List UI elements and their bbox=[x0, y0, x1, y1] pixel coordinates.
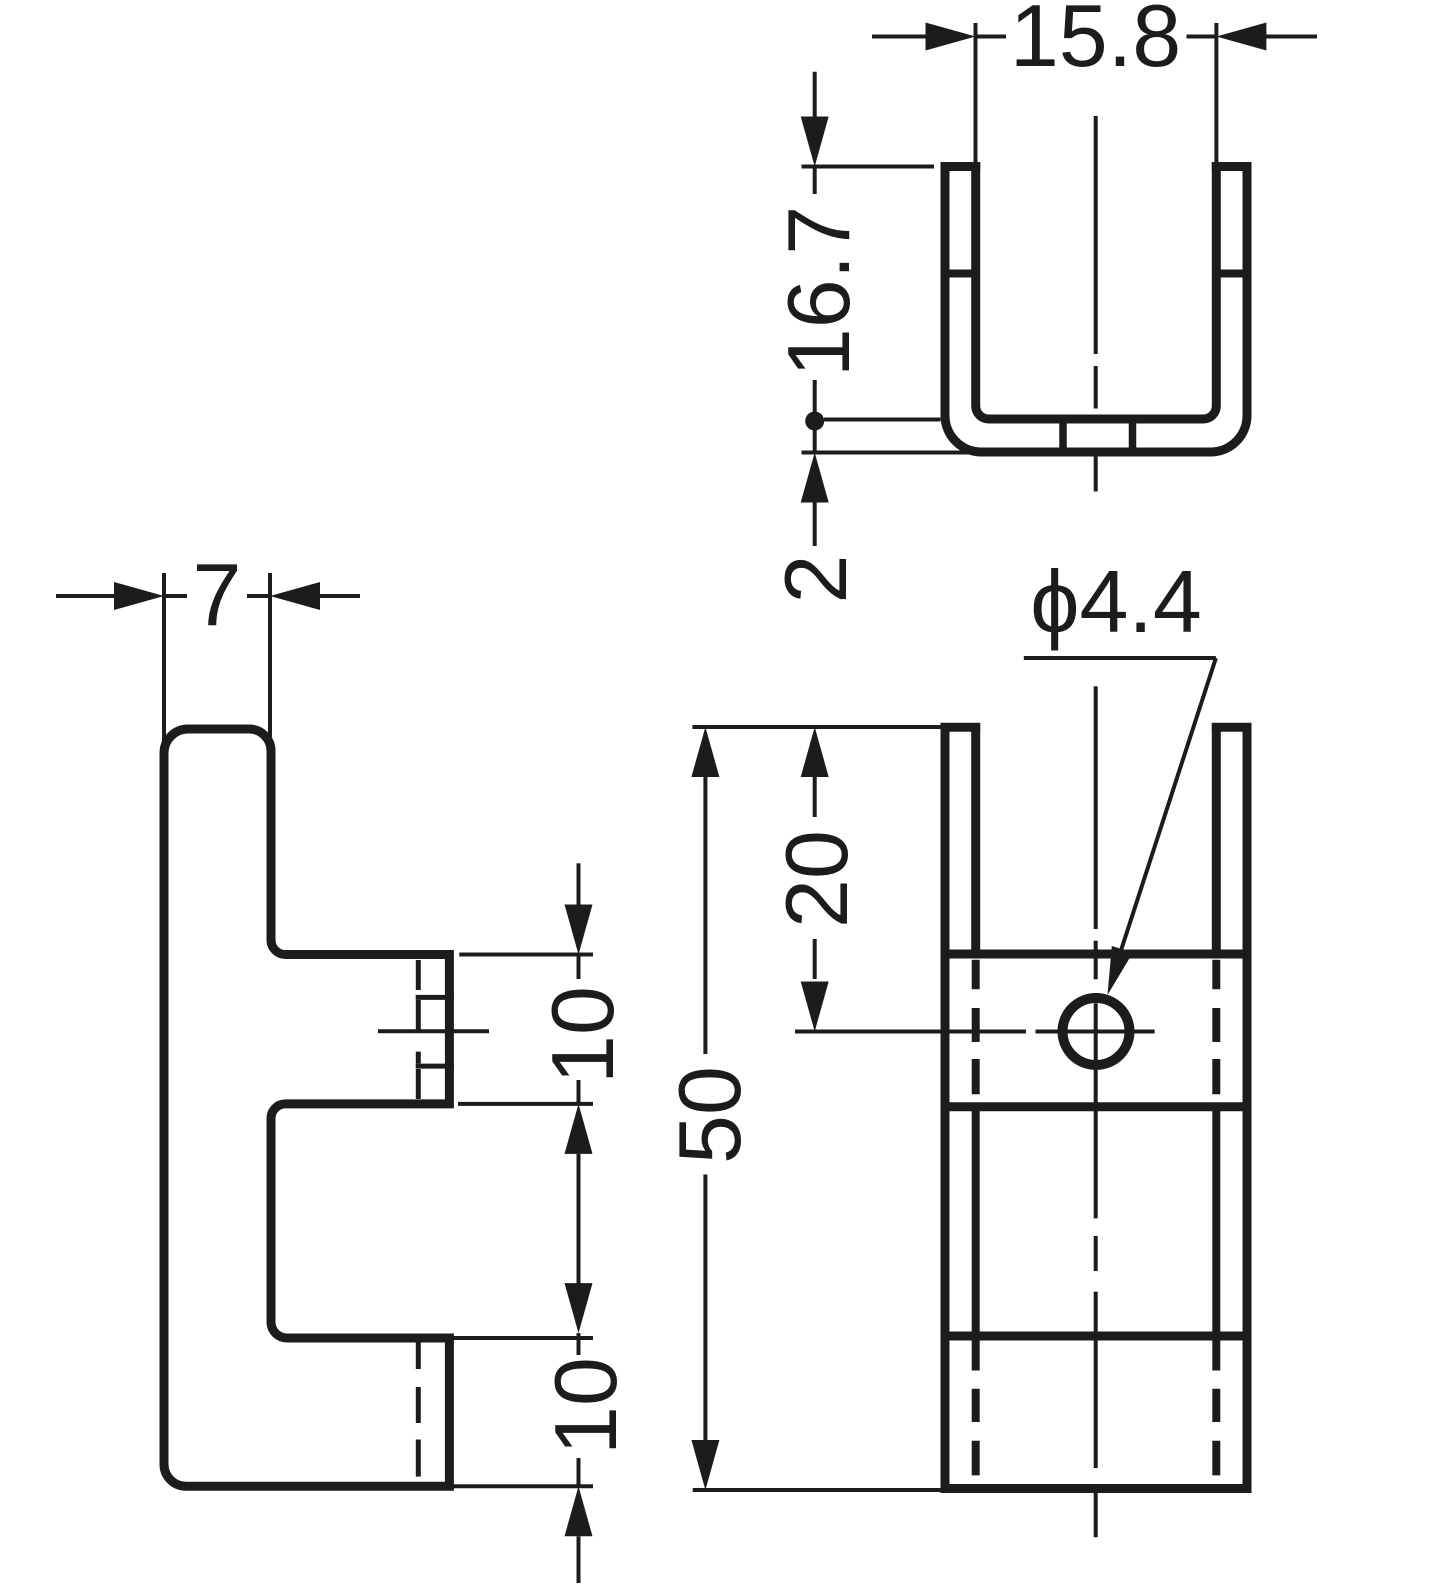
svg-text:16.7: 16.7 bbox=[769, 206, 868, 377]
svg-text:20: 20 bbox=[767, 830, 866, 928]
dimension 15.8 dim line right + arrow bbox=[1187, 23, 1318, 51]
front left inner wall solid band1 bbox=[971, 723, 980, 954]
front band line 1 bbox=[941, 950, 1252, 959]
side ext line y1338 bbox=[452, 1336, 593, 1340]
side ext line y954 bbox=[459, 953, 593, 957]
hole circle bbox=[1063, 998, 1130, 1065]
hole horizontal center line bbox=[795, 1030, 1026, 1034]
right leg crossbar bbox=[1212, 270, 1251, 278]
inner outline of channel bbox=[976, 162, 1217, 419]
dot terminator at 16.7/2 boundary bbox=[805, 412, 824, 431]
front outer right edge bbox=[1243, 723, 1252, 1493]
svg-text:15.8: 15.8 bbox=[1010, 0, 1181, 85]
side ext line y1486 bbox=[452, 1484, 593, 1488]
front outer left edge bbox=[941, 723, 950, 1493]
dimension 16.7 bottom extension line bbox=[824, 418, 941, 422]
leader line underline for dia 4.4 bbox=[1024, 656, 1216, 660]
leader diagonal for dia 4.4 bbox=[1113, 658, 1216, 975]
dimension 15.8 dim line left + arrow bbox=[872, 23, 1006, 51]
svg-text:10: 10 bbox=[536, 1357, 635, 1455]
svg-text:10: 10 bbox=[533, 986, 632, 1084]
right leg top cap bbox=[1212, 162, 1252, 171]
top view vertical center line bbox=[1094, 116, 1098, 492]
side hidden line lower column bbox=[416, 1341, 421, 1477]
dimension 7 right arrow bbox=[247, 582, 360, 610]
dimension 7 left arrow bbox=[56, 582, 187, 610]
dimension 50 line + arrows bbox=[691, 727, 719, 1490]
front right inner wall hidden dashes band2 bbox=[1212, 960, 1220, 1094]
dimension 50 bottom extension line bbox=[693, 1488, 944, 1492]
dimension 50/20 top extension line bbox=[692, 725, 943, 729]
front band line 2 bbox=[941, 1102, 1252, 1111]
bottom joint tick left bbox=[1059, 419, 1067, 452]
dimension 10 middle arrows (between the two 10 dims) bbox=[565, 1080, 593, 1333]
dim line stub below second 10 top ext bbox=[577, 1333, 581, 1355]
dimension 10 lower bottom arrow bbox=[565, 1458, 593, 1583]
dimension 2 bottom extension line bbox=[802, 451, 984, 455]
front left inner wall solid band3 bbox=[972, 1107, 980, 1336]
svg-text:2: 2 bbox=[766, 555, 865, 604]
front right inner wall hidden dashes band4 bbox=[1212, 1340, 1220, 1475]
bottom joint tick right bbox=[1129, 419, 1137, 452]
dimension 7 right extension line bbox=[268, 573, 272, 737]
front left tab top cap bbox=[941, 723, 981, 732]
left leg top cap bbox=[941, 162, 981, 171]
dimension 16.7 upper arrow bbox=[801, 72, 829, 194]
dimension 20 line + arrows bbox=[801, 727, 829, 1032]
dimension 10 upper arrow group bbox=[565, 863, 593, 979]
front right inner wall solid band1 bbox=[1212, 723, 1221, 954]
dimension 2 up arrow bbox=[801, 453, 829, 547]
slot top line bbox=[416, 995, 454, 1000]
front right inner wall solid band3 bbox=[1212, 1107, 1220, 1336]
dimension 15.8 extension line left bbox=[974, 23, 978, 162]
front left inner wall hidden dashes band4 bbox=[972, 1340, 980, 1475]
svg-text:ϕ4.4: ϕ4.4 bbox=[1030, 552, 1202, 651]
svg-text:50: 50 bbox=[660, 1066, 759, 1164]
dimension 15.8 extension line right bbox=[1214, 23, 1218, 162]
dim line segment below 16.7 text bbox=[813, 380, 817, 421]
front vertical center line bbox=[1094, 686, 1098, 1537]
svg-text:7: 7 bbox=[193, 545, 242, 644]
side hidden line upper column bbox=[416, 960, 421, 1099]
front bottom edge bbox=[941, 1484, 1252, 1493]
left leg crossbar bbox=[941, 270, 980, 278]
slot bottom line bbox=[416, 1064, 454, 1069]
side view outline bbox=[164, 729, 449, 1486]
slot center tick bbox=[378, 1029, 489, 1033]
leader arrowhead bbox=[1108, 946, 1133, 995]
front band line 3 bbox=[941, 1332, 1252, 1341]
dimension 16.7 top extension line bbox=[802, 165, 935, 169]
dimension 7 left extension line bbox=[162, 573, 166, 741]
front right tab top cap bbox=[1212, 723, 1252, 732]
side ext line y1104 bbox=[458, 1102, 593, 1106]
outer outline of channel bbox=[945, 162, 1247, 452]
front left inner wall hidden dashes band2 bbox=[972, 960, 980, 1094]
